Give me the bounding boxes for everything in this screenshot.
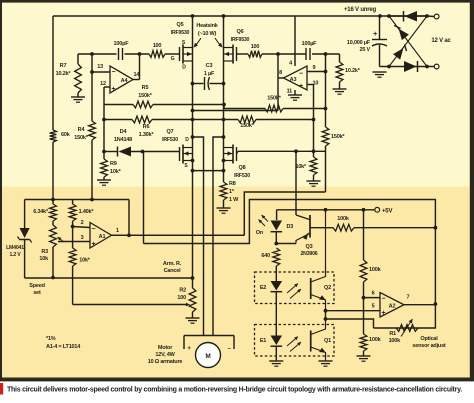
- svg-text:100: 100: [251, 44, 260, 50]
- svg-text:11: 11: [287, 89, 293, 95]
- svg-text:−: −: [92, 226, 96, 233]
- svg-text:100: 100: [177, 295, 186, 301]
- svg-text:6.34k*: 6.34k*: [33, 209, 49, 215]
- svg-text:R5: R5: [142, 85, 149, 91]
- svg-text:+: +: [112, 86, 116, 93]
- svg-text:Q1: Q1: [324, 338, 331, 344]
- svg-text:On: On: [256, 230, 264, 236]
- svg-text:1.40k*: 1.40k*: [79, 209, 95, 215]
- svg-text:100k: 100k: [389, 338, 402, 344]
- svg-text:Optical: Optical: [420, 336, 438, 342]
- svg-text:9: 9: [313, 65, 316, 71]
- svg-text:IRF9530: IRF9530: [171, 30, 190, 36]
- svg-text:Q5: Q5: [177, 22, 184, 28]
- svg-text:IRF530: IRF530: [234, 173, 250, 179]
- svg-text:1N4148: 1N4148: [114, 137, 132, 143]
- svg-text:100k: 100k: [369, 337, 382, 343]
- svg-text:D4: D4: [120, 129, 128, 135]
- svg-text:IRF530: IRF530: [162, 137, 178, 143]
- svg-text:10k*: 10k*: [79, 258, 91, 264]
- svg-text:R9: R9: [110, 161, 117, 167]
- svg-text:Q3: Q3: [306, 244, 313, 250]
- svg-text:7: 7: [407, 295, 410, 301]
- svg-text:10.2k*: 10.2k*: [345, 68, 361, 74]
- svg-text:1: 1: [116, 228, 119, 234]
- svg-text:100k: 100k: [337, 216, 350, 222]
- svg-text:This circuit delivers motor-sp: This circuit delivers motor-speed contro…: [7, 387, 462, 394]
- svg-text:100pF: 100pF: [114, 41, 130, 47]
- svg-text:Cancel: Cancel: [164, 268, 182, 274]
- svg-text:A3: A3: [290, 77, 297, 83]
- svg-text:D3: D3: [287, 224, 294, 230]
- svg-text:A2: A2: [389, 304, 396, 310]
- svg-text:Q2: Q2: [324, 285, 331, 291]
- svg-text:1 µF: 1 µF: [204, 71, 215, 77]
- svg-text:12: 12: [100, 81, 106, 87]
- svg-text:Q6: Q6: [237, 29, 244, 35]
- svg-text:+5V: +5V: [382, 209, 392, 215]
- svg-text:Q7: Q7: [167, 129, 174, 135]
- svg-text:150k*: 150k*: [331, 134, 345, 140]
- svg-text:100k: 100k: [369, 267, 382, 273]
- svg-text:Arm. R.: Arm. R.: [163, 261, 182, 267]
- svg-text:R6: R6: [143, 124, 150, 130]
- svg-text:100: 100: [153, 43, 162, 49]
- svg-text:+: +: [92, 241, 96, 248]
- svg-text:25 V: 25 V: [359, 47, 370, 53]
- svg-text:D: D: [182, 65, 186, 71]
- svg-text:R8: R8: [229, 181, 236, 187]
- svg-text:*1%: *1%: [46, 336, 56, 342]
- svg-text:−: −: [299, 71, 303, 78]
- svg-text:5: 5: [372, 304, 375, 310]
- svg-text:13: 13: [97, 64, 103, 70]
- svg-text:1 W: 1 W: [229, 197, 239, 203]
- svg-text:A1: A1: [99, 234, 106, 240]
- svg-text:10k*: 10k*: [295, 164, 307, 170]
- svg-text:−: −: [112, 69, 116, 76]
- svg-text:E1: E1: [260, 338, 266, 344]
- svg-text:8: 8: [279, 70, 282, 76]
- svg-text:+: +: [382, 310, 386, 317]
- svg-text:150k*: 150k*: [74, 135, 88, 141]
- svg-text:R7: R7: [60, 63, 67, 69]
- svg-text:C3: C3: [206, 63, 213, 69]
- svg-text:10,000 µF: 10,000 µF: [347, 40, 371, 46]
- svg-text:LM4041: LM4041: [6, 245, 24, 251]
- svg-text:Q8: Q8: [239, 165, 246, 171]
- svg-text:M: M: [205, 353, 210, 360]
- svg-text:6: 6: [372, 291, 375, 297]
- svg-text:2: 2: [81, 220, 84, 226]
- svg-text:10 Ω armature: 10 Ω armature: [148, 359, 183, 365]
- svg-text:10k: 10k: [39, 256, 49, 262]
- svg-text:150k*: 150k*: [138, 93, 152, 99]
- svg-text:10k*: 10k*: [110, 169, 122, 175]
- svg-text:IRF9530: IRF9530: [231, 37, 250, 43]
- svg-text:R3: R3: [41, 249, 48, 255]
- svg-text:−: −: [382, 296, 386, 303]
- svg-text:1.30k*: 1.30k*: [139, 132, 155, 138]
- svg-text:640: 640: [261, 253, 270, 259]
- svg-text:100µF: 100µF: [302, 41, 318, 47]
- svg-text:+: +: [373, 31, 377, 38]
- svg-text:2N3906: 2N3906: [301, 251, 318, 257]
- svg-text:12 V ac: 12 V ac: [431, 38, 451, 44]
- svg-text:G: G: [171, 56, 175, 62]
- svg-text:D: D: [185, 137, 189, 143]
- svg-text:set: set: [33, 290, 41, 296]
- svg-text:+16 V unreg: +16 V unreg: [344, 7, 377, 13]
- svg-text:150k*: 150k*: [240, 123, 254, 129]
- svg-text:sensor adjust: sensor adjust: [412, 343, 446, 349]
- svg-text:A1-4 = LT1014: A1-4 = LT1014: [46, 344, 81, 350]
- svg-text:Heatsink: Heatsink: [196, 23, 218, 29]
- svg-text:Motor: Motor: [158, 345, 173, 351]
- svg-text:A4: A4: [121, 78, 129, 84]
- svg-text:R4: R4: [78, 127, 86, 133]
- svg-text:1.2 V: 1.2 V: [9, 252, 21, 258]
- svg-text:10.2k*: 10.2k*: [56, 71, 72, 77]
- svg-text:150k*: 150k*: [267, 96, 281, 102]
- svg-text:(~10 W): (~10 W): [198, 31, 217, 37]
- svg-text:Speed: Speed: [29, 283, 45, 289]
- svg-text:12V, 4W: 12V, 4W: [155, 352, 175, 358]
- svg-text:3: 3: [81, 235, 84, 241]
- svg-text:R1: R1: [389, 331, 396, 337]
- svg-text:+: +: [299, 83, 303, 90]
- svg-text:R2: R2: [179, 288, 186, 294]
- svg-text:60k: 60k: [61, 132, 71, 138]
- svg-text:E2: E2: [260, 285, 266, 291]
